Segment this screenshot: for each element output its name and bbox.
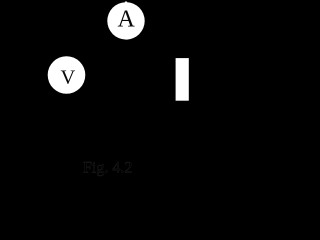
resistor R: [176, 58, 189, 101]
ammeter A: [107, 2, 144, 39]
wire (top stub into ammeter, flattened to background): [125, 2, 127, 6]
svg-text:Fig. 4.2: Fig. 4.2: [83, 160, 132, 177]
voltmeter V: [48, 56, 86, 94]
svg-text:A: A: [118, 7, 136, 33]
svg-text:V: V: [60, 67, 75, 89]
